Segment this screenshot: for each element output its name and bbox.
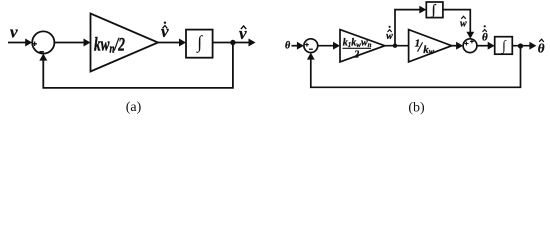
svg-text:v: v [161,22,169,41]
svg-text:v: v [239,24,247,43]
svg-text:2: 2 [353,50,359,61]
svg-text:v: v [10,23,18,42]
svg-text:kwn/2: kwn/2 [94,33,125,56]
svg-text:w: w [386,31,393,42]
svg-text:(a): (a) [126,100,142,115]
svg-text:(b): (b) [408,101,425,116]
svg-text:θ: θ [538,41,545,56]
svg-text:w: w [460,19,467,30]
svg-text:θ: θ [285,41,291,52]
svg-text:θ: θ [482,32,488,44]
